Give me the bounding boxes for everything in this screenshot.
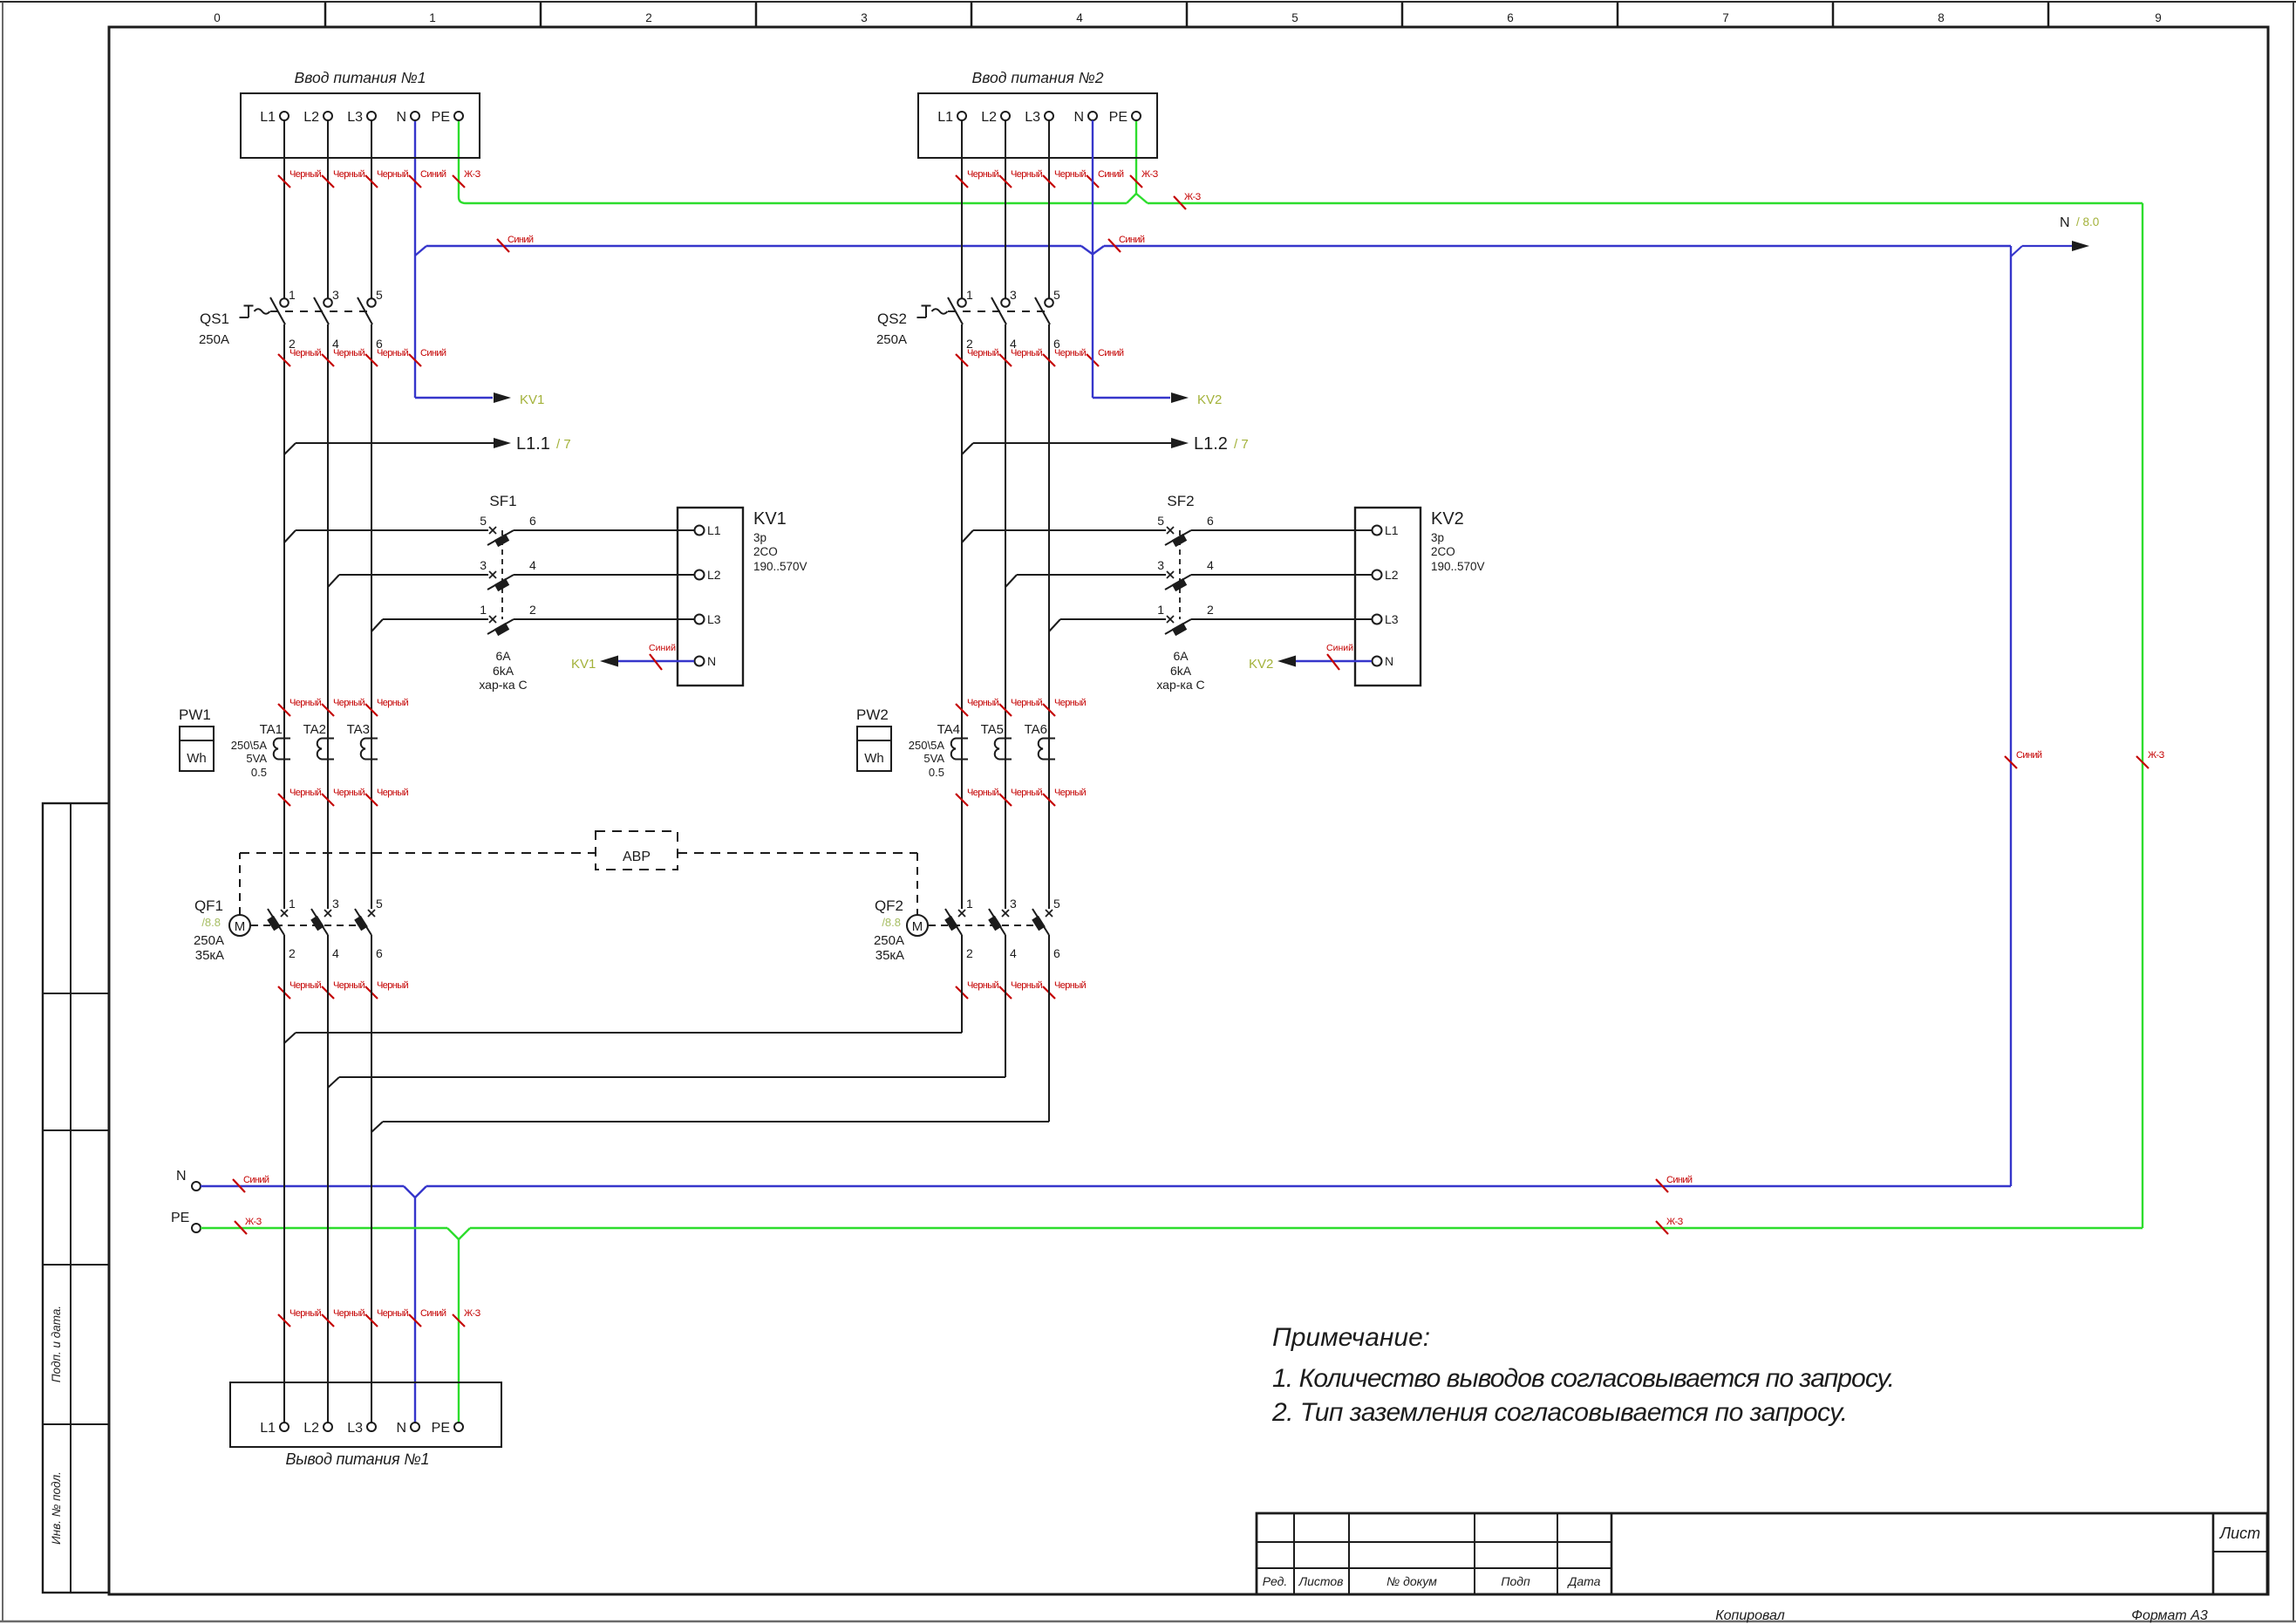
svg-text:Ж-З: Ж-З <box>464 1308 481 1319</box>
svg-text:6: 6 <box>1507 11 1514 24</box>
SF1 pole 1-2 <box>371 619 383 631</box>
svg-text:Подп: Подп <box>1501 1574 1530 1588</box>
KV1 terminal N <box>678 660 694 662</box>
svg-text:4: 4 <box>1076 11 1083 24</box>
svg-text:Черный: Черный <box>333 788 365 798</box>
svg-text:TA3: TA3 <box>347 722 370 737</box>
QF1 motor drive M <box>229 915 250 936</box>
svg-text:АВР: АВР <box>623 850 651 864</box>
svg-text:Черный: Черный <box>967 348 999 358</box>
svg-text:1: 1 <box>1157 603 1164 617</box>
colour labels below TA4-TA6 <box>956 794 968 806</box>
svg-text:6kA: 6kA <box>1170 664 1192 678</box>
svg-text:Черный: Черный <box>967 698 999 708</box>
svg-text:PW1: PW1 <box>179 706 211 723</box>
wire SF1 pin 2 to KV1 <box>514 618 678 620</box>
svg-text:L2: L2 <box>1385 568 1399 582</box>
svg-text:N: N <box>396 110 406 125</box>
svg-text:Черный: Черный <box>290 698 322 708</box>
svg-text:L2: L2 <box>981 110 997 125</box>
svg-text:1: 1 <box>429 11 436 24</box>
svg-text:L3: L3 <box>1385 612 1399 626</box>
svg-text:M: M <box>912 919 923 934</box>
svg-text:190..570V: 190..570V <box>753 560 807 573</box>
svg-text:Черный: Черный <box>290 1308 322 1319</box>
svg-text:5: 5 <box>480 514 487 528</box>
svg-text:/ 7: / 7 <box>1234 437 1249 452</box>
svg-text:3: 3 <box>861 11 868 24</box>
svg-text:Ввод питания №2: Ввод питания №2 <box>972 69 1104 86</box>
svg-text:2: 2 <box>289 946 296 960</box>
ruler tick 1|2 <box>540 2 542 27</box>
svg-text:1: 1 <box>289 288 296 302</box>
svg-text:4: 4 <box>529 558 536 572</box>
svg-text:Черный: Черный <box>377 980 409 991</box>
title block columns <box>1293 1513 1295 1594</box>
svg-text:L1: L1 <box>937 110 953 125</box>
svg-text:Ж-З: Ж-З <box>2148 750 2165 761</box>
node L1.2 outgoing arrow <box>962 443 973 454</box>
svg-text:Черный: Черный <box>1011 980 1043 991</box>
ruler tick 2|3 <box>755 2 758 27</box>
label Ж-З on right PE vertical <box>2136 756 2149 768</box>
svg-text:Черный: Черный <box>1054 169 1087 180</box>
voltage relay KV2 <box>1355 508 1421 686</box>
svg-text:Синий: Синий <box>1119 235 1145 245</box>
svg-text:хар-ка С: хар-ка С <box>1156 678 1204 692</box>
svg-text:3p: 3p <box>753 531 766 544</box>
wire SF2 pin 4 to KV2 <box>1191 574 1355 576</box>
wire phase x=376 from input 1 to QS1 <box>327 120 329 298</box>
svg-text:L1: L1 <box>260 110 276 125</box>
svg-text:250А: 250А <box>199 332 229 347</box>
wire below QS1 pole 6 <box>371 324 372 909</box>
KV2 terminal L2 <box>1355 574 1372 576</box>
colour labels below QF1 <box>278 986 290 999</box>
KV1 N coil wire with arrow <box>618 660 694 662</box>
svg-text:1: 1 <box>480 603 487 617</box>
junction PE input2 drop <box>1135 120 1137 194</box>
svg-text:KV2: KV2 <box>1197 392 1222 407</box>
QS2 motor-handle symbol <box>922 305 931 307</box>
svg-text:Черный: Черный <box>1054 788 1087 798</box>
svg-text:5VA: 5VA <box>923 752 944 765</box>
node L1.1 outgoing arrow <box>284 443 296 454</box>
svg-text:N: N <box>176 1169 187 1184</box>
svg-text:250\5A: 250\5A <box>909 739 945 752</box>
svg-text:Инв. № подл.: Инв. № подл. <box>50 1471 63 1545</box>
svg-text:Ввод питания №1: Ввод питания №1 <box>295 69 426 86</box>
wire N to KV1 coil arrow <box>415 397 493 399</box>
wire N to KV2 coil arrow <box>1093 397 1170 399</box>
svg-text:Черный: Черный <box>1054 980 1087 991</box>
svg-text:3: 3 <box>332 288 339 302</box>
svg-text:Wh: Wh <box>187 751 207 766</box>
svg-text:SF1: SF1 <box>489 493 516 509</box>
svg-text:M: M <box>235 919 246 934</box>
label Синий on right N vertical <box>2005 756 2017 768</box>
svg-text:3: 3 <box>332 897 339 911</box>
svg-text:Черный: Черный <box>967 980 999 991</box>
label Ж-З on bottom PE bus left <box>235 1221 247 1234</box>
wire N right vertical <box>2010 246 2012 1186</box>
svg-text:5: 5 <box>376 897 383 911</box>
colour labels below QS1 <box>278 354 290 366</box>
wire PE right vertical <box>2142 203 2143 1228</box>
svg-text:0.5: 0.5 <box>251 766 267 779</box>
svg-text:190..570V: 190..570V <box>1431 560 1485 573</box>
svg-text:4: 4 <box>1207 558 1214 572</box>
SF2 pole 3-4 <box>1005 575 1017 587</box>
top ruler band line <box>109 26 2268 29</box>
svg-text:Синий: Синий <box>1098 348 1124 358</box>
svg-text:QF1: QF1 <box>194 897 223 914</box>
svg-text:L1.2: L1.2 <box>1194 434 1228 454</box>
svg-text:6: 6 <box>376 946 383 960</box>
svg-text:Черный: Черный <box>1011 348 1043 358</box>
ruler tick 4|5 <box>1186 2 1189 27</box>
ABP box <box>596 831 678 870</box>
svg-text:2: 2 <box>529 603 536 617</box>
svg-text:PE: PE <box>432 1421 450 1436</box>
wire PE bus bottom (green) <box>201 1227 447 1229</box>
ruler tick 3|4 <box>971 2 973 27</box>
svg-text:7: 7 <box>1722 11 1729 24</box>
QS2 interlock dashes <box>948 310 1049 312</box>
svg-text:TA6: TA6 <box>1025 722 1047 737</box>
svg-text:Wh: Wh <box>864 751 884 766</box>
svg-text:Черный: Черный <box>377 348 409 358</box>
svg-text:35кА: 35кА <box>875 948 904 963</box>
svg-text:№ докум: № докум <box>1386 1574 1437 1588</box>
wire phase x=326 from input 1 to QS1 <box>283 120 285 298</box>
svg-text:N: N <box>396 1421 406 1436</box>
svg-text:KV1: KV1 <box>753 509 787 529</box>
colour labels below QF2 <box>956 986 968 999</box>
SF1 pole 3-4 <box>328 575 339 587</box>
svg-text:3: 3 <box>1010 288 1017 302</box>
svg-text:L2: L2 <box>303 1421 319 1436</box>
KV1 terminal L1 <box>678 529 694 531</box>
svg-text:TA4: TA4 <box>937 722 960 737</box>
svg-text:6: 6 <box>529 514 536 528</box>
svg-text:Синий: Синий <box>1666 1175 1693 1185</box>
label Синий on top N bus left <box>497 239 509 252</box>
wire below QS1 pole 4 <box>327 324 329 909</box>
junction N input2 drop (V) <box>1081 246 1104 255</box>
svg-text:6A: 6A <box>495 649 511 663</box>
svg-text:KV1: KV1 <box>520 392 544 407</box>
svg-text:L1.1: L1.1 <box>516 434 550 454</box>
svg-text:L1: L1 <box>1385 523 1399 537</box>
svg-text:L3: L3 <box>707 612 721 626</box>
svg-text:Черный: Черный <box>377 1308 409 1319</box>
svg-text:6kA: 6kA <box>493 664 514 678</box>
svg-text:Черный: Черный <box>377 698 409 708</box>
wire QF1 output L1 down to output block <box>283 935 285 1423</box>
wire phase x=1153 from input 2 to QS2 <box>1005 120 1006 298</box>
svg-text:L1: L1 <box>260 1421 276 1436</box>
voltage relay KV1 <box>678 508 743 686</box>
QF1 interlock dashes <box>251 925 356 926</box>
svg-text:2CO: 2CO <box>753 545 778 558</box>
svg-text:5: 5 <box>1291 11 1298 24</box>
svg-text:Черный: Черный <box>290 348 322 358</box>
wire N bus top (blue) <box>414 120 416 398</box>
svg-text:/ 7: / 7 <box>556 437 571 452</box>
KV2 terminal N <box>1355 660 1372 662</box>
svg-text:Синий: Синий <box>420 169 446 180</box>
svg-text:5: 5 <box>376 288 383 302</box>
svg-text:Черный: Черный <box>333 1308 365 1319</box>
svg-text:Подп. и дата.: Подп. и дата. <box>50 1306 63 1382</box>
svg-text:/8.8: /8.8 <box>882 916 901 929</box>
svg-text:3p: 3p <box>1431 531 1444 544</box>
label Синий on KV1 N wire <box>650 654 662 670</box>
KV1 terminal L2 <box>678 574 694 576</box>
svg-text:L3: L3 <box>1025 110 1040 125</box>
svg-text:Черный: Черный <box>333 980 365 991</box>
ruler tick 5|6 <box>1401 2 1404 27</box>
svg-text:Примечание:: Примечание: <box>1272 1323 1430 1352</box>
wire SF2 pin 2 to KV2 <box>1191 618 1355 620</box>
svg-text:6: 6 <box>1053 946 1060 960</box>
svg-text:3: 3 <box>480 558 487 572</box>
svg-text:Синий: Синий <box>649 643 676 653</box>
ruler tick 0|1 <box>324 2 327 27</box>
QS1 motor-handle symbol <box>244 305 254 307</box>
svg-text:KV1: KV1 <box>571 657 596 672</box>
input terminal block Ввод питания №1 <box>241 93 480 158</box>
svg-text:TA5: TA5 <box>981 722 1004 737</box>
svg-text:Черный: Черный <box>377 788 409 798</box>
svg-text:Лист: Лист <box>2219 1525 2260 1542</box>
svg-text:Черный: Черный <box>1054 698 1087 708</box>
svg-text:L1: L1 <box>707 523 721 537</box>
svg-text:4: 4 <box>332 946 339 960</box>
svg-text:Черный: Черный <box>290 169 322 180</box>
svg-text:Черный: Черный <box>333 169 365 180</box>
svg-text:N: N <box>707 654 716 668</box>
svg-text:/8.8: /8.8 <box>201 916 221 929</box>
svg-text:L3: L3 <box>347 1421 363 1436</box>
wire QF2 output L2 to shared node <box>1005 935 1006 1077</box>
QS1 interlock dashes <box>270 310 371 312</box>
svg-text:Черный: Черный <box>377 169 409 180</box>
svg-text:2CO: 2CO <box>1431 545 1455 558</box>
svg-text:1: 1 <box>966 288 973 302</box>
SF2 pole 5-6 <box>962 530 973 542</box>
wire phase x=426 from input 1 to QS1 <box>371 120 372 298</box>
svg-text:250А: 250А <box>876 332 907 347</box>
svg-text:8: 8 <box>1938 11 1945 24</box>
wire below QS2 pole 6 <box>1048 324 1050 909</box>
colour labels below input block 1 <box>278 175 290 188</box>
wire phase x=1203 from input 2 to QS2 <box>1048 120 1050 298</box>
svg-text:Ж-З: Ж-З <box>1184 192 1202 202</box>
svg-text:250\5A: 250\5A <box>231 739 268 752</box>
outer scan border <box>0 1 2296 3</box>
wire N bus bottom (blue) <box>201 1185 404 1187</box>
output terminal block Вывод питания №1 <box>230 1382 501 1447</box>
svg-text:Ж-З: Ж-З <box>1666 1217 1684 1227</box>
label Синий on bottom N bus right <box>1656 1179 1668 1192</box>
svg-text:250А: 250А <box>874 933 904 948</box>
svg-text:Черный: Черный <box>290 980 322 991</box>
wire below QS2 pole 2 <box>961 324 963 909</box>
svg-text:Формат А3: Формат А3 <box>2131 1608 2208 1623</box>
KV2 terminal L3 <box>1355 618 1372 620</box>
left margin table <box>43 803 109 1593</box>
ABP dashed link left <box>239 853 241 915</box>
svg-text:5: 5 <box>1053 897 1060 911</box>
svg-text:Синий: Синий <box>420 348 446 358</box>
svg-text:Листов: Листов <box>1298 1574 1344 1588</box>
SF1 pole 5-6 <box>284 530 296 542</box>
terminal PE bus (bottom left) <box>192 1224 201 1232</box>
svg-text:Вывод питания №1: Вывод питания №1 <box>286 1450 430 1468</box>
label Синий on bottom N bus left <box>233 1179 245 1192</box>
label Ж-З on top PE bus <box>1174 196 1186 209</box>
colour labels below TA1-TA3 <box>278 794 290 806</box>
svg-text:TA2: TA2 <box>303 722 326 737</box>
svg-text:Черный: Черный <box>967 788 999 798</box>
label Синий on KV2 N wire <box>1327 654 1339 670</box>
svg-text:3: 3 <box>1010 897 1017 911</box>
title block frame <box>1257 1513 2267 1594</box>
wire QF1 output L2 down to output block <box>327 935 329 1423</box>
svg-text:QS1: QS1 <box>200 310 229 327</box>
svg-text:250А: 250А <box>194 933 224 948</box>
svg-text:6: 6 <box>1207 514 1214 528</box>
svg-text:2: 2 <box>645 11 652 24</box>
svg-text:Синий: Синий <box>508 235 534 245</box>
svg-text:SF2: SF2 <box>1167 493 1194 509</box>
svg-text:5: 5 <box>1157 514 1164 528</box>
wire N drop to output <box>414 1198 416 1423</box>
svg-text:QS2: QS2 <box>877 310 907 327</box>
svg-text:PW2: PW2 <box>856 706 889 723</box>
svg-text:KV2: KV2 <box>1249 657 1273 672</box>
svg-text:хар-ка С: хар-ка С <box>479 678 527 692</box>
wire PE bus top (green) <box>458 120 460 197</box>
svg-text:N: N <box>1073 110 1084 125</box>
ruler tick 6|7 <box>1617 2 1619 27</box>
svg-text:Ж-З: Ж-З <box>245 1217 262 1227</box>
wire PE drop to output <box>458 1239 460 1423</box>
svg-text:Черный: Черный <box>333 348 365 358</box>
label Синий on top N bus right <box>1108 239 1121 252</box>
svg-text:5VA: 5VA <box>246 752 267 765</box>
svg-text:Черный: Черный <box>967 169 999 180</box>
svg-text:PE: PE <box>171 1211 189 1225</box>
svg-text:Синий: Синий <box>1098 169 1124 180</box>
svg-text:1: 1 <box>289 897 296 911</box>
wire below QS1 pole 2 <box>283 324 285 909</box>
KV2 N coil wire with arrow <box>1296 660 1372 662</box>
SF1 interlock dashes <box>501 530 503 619</box>
ruler tick 7|8 <box>1832 2 1835 27</box>
svg-text:Ж-З: Ж-З <box>1141 169 1159 180</box>
svg-text:Черный: Черный <box>333 698 365 708</box>
wire QF1 output L3 down to output block <box>371 935 372 1423</box>
svg-text:1: 1 <box>966 897 973 911</box>
input terminal block Ввод питания №2 <box>918 93 1157 158</box>
svg-text:TA1: TA1 <box>260 722 283 737</box>
colour labels below QS2 <box>956 354 968 366</box>
SF2 interlock dashes <box>1179 530 1181 619</box>
svg-text:4: 4 <box>1010 946 1017 960</box>
wire QF2 output L3 to shared node <box>1048 935 1050 1122</box>
svg-text:5: 5 <box>1053 288 1060 302</box>
svg-text:2. Тип заземления согласовывае: 2. Тип заземления согласовывается по зап… <box>1271 1398 1848 1427</box>
svg-text:Ред.: Ред. <box>1263 1574 1287 1588</box>
svg-text:0.5: 0.5 <box>929 766 944 779</box>
svg-text:2: 2 <box>1207 603 1214 617</box>
svg-text:PE: PE <box>432 110 450 125</box>
svg-text:L3: L3 <box>347 110 363 125</box>
svg-text:Синий: Синий <box>2016 750 2042 761</box>
svg-text:Черный: Черный <box>1011 169 1043 180</box>
svg-text:1. Количество выводов согласов: 1. Количество выводов согласовывается по… <box>1272 1364 1895 1393</box>
wire SF1 pin 6 to KV1 <box>514 529 678 531</box>
svg-text:2: 2 <box>966 946 973 960</box>
KV2 terminal L1 <box>1355 529 1372 531</box>
svg-text:Дата: Дата <box>1567 1574 1601 1588</box>
wire phase x=1103 from input 2 to QS2 <box>961 120 963 298</box>
colour labels above TA1-TA3 <box>278 704 290 716</box>
svg-text:Ж-З: Ж-З <box>464 169 481 180</box>
ruler tick 8|9 <box>2047 2 2050 27</box>
svg-text:3: 3 <box>1157 558 1164 572</box>
QF2 motor drive M <box>907 915 928 936</box>
QF2 interlock dashes <box>929 925 1033 926</box>
wire QF2 output L1 to shared node <box>961 935 963 1033</box>
label Ж-З on bottom PE bus right <box>1656 1221 1668 1234</box>
wire N input2 drop to KV2 arrow <box>1092 120 1093 398</box>
colour labels above output block <box>278 1314 290 1327</box>
svg-text:0: 0 <box>214 11 221 24</box>
svg-text:N: N <box>1385 654 1393 668</box>
wire SF2 pin 6 to KV2 <box>1191 529 1355 531</box>
svg-text:L2: L2 <box>303 110 319 125</box>
title block rows <box>1257 1541 1611 1543</box>
svg-text:QF2: QF2 <box>875 897 903 914</box>
colour labels above TA4-TA6 <box>956 704 968 716</box>
svg-text:6A: 6A <box>1173 649 1189 663</box>
svg-text:L2: L2 <box>707 568 721 582</box>
wire SF1 pin 4 to KV1 <box>514 574 678 576</box>
arrow N / 8.0 (sheet reference) <box>2011 246 2022 256</box>
svg-text:Черный: Черный <box>1011 788 1043 798</box>
svg-text:Синий: Синий <box>420 1308 446 1319</box>
svg-text:35кА: 35кА <box>195 948 224 963</box>
svg-text:Синий: Синий <box>243 1175 269 1185</box>
SF2 pole 1-2 <box>1049 619 1060 631</box>
svg-text:PE: PE <box>1109 110 1128 125</box>
svg-text:Черный: Черный <box>290 788 322 798</box>
svg-text:9: 9 <box>2155 11 2162 24</box>
terminal N bus (bottom left) <box>192 1182 201 1191</box>
svg-text:Черный: Черный <box>1054 348 1087 358</box>
svg-text:/ 8.0: / 8.0 <box>2076 215 2099 229</box>
svg-text:N: N <box>2060 215 2070 230</box>
colour labels below input block 2 <box>956 175 968 188</box>
wire below QS2 pole 4 <box>1005 324 1006 909</box>
svg-text:Черный: Черный <box>1011 698 1043 708</box>
svg-text:Синий: Синий <box>1326 643 1353 653</box>
KV1 terminal L3 <box>678 618 694 620</box>
